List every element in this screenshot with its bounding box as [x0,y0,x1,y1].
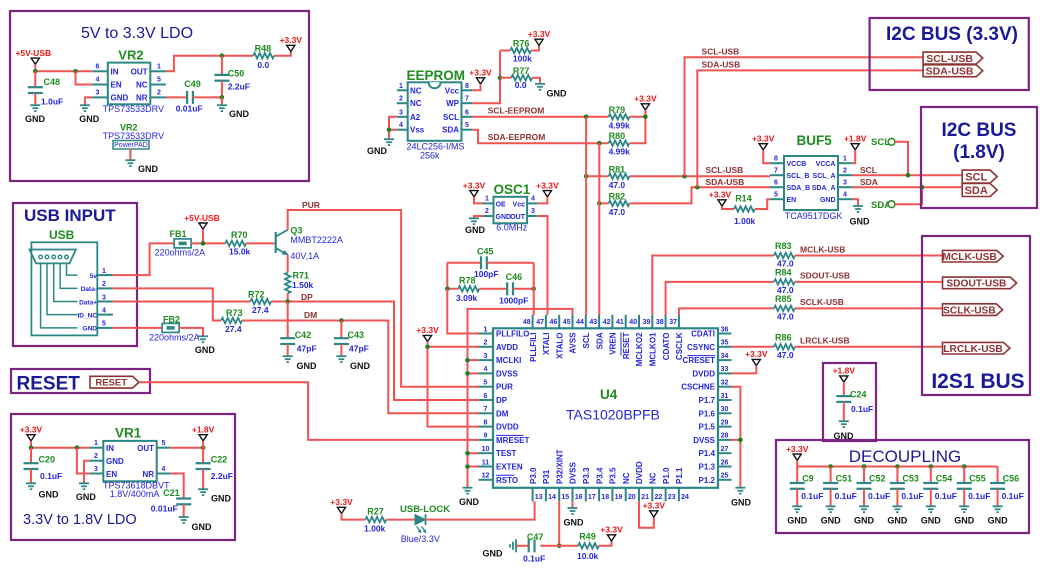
svg-text:36: 36 [721,326,729,333]
svg-text:SCL: SCL [443,113,459,122]
resistor R77 [500,77,511,79]
capacitor C43 on DM [340,321,342,339]
wire USB internal [41,263,78,328]
wire DVDD pin21 power [639,501,654,527]
wire VR1 GND [84,461,90,483]
ground [826,505,836,507]
svg-text:GND: GND [854,516,875,526]
svg-text:100k: 100k [513,54,532,64]
svg-text:GND: GND [483,549,504,559]
power flag +3.3V [287,45,295,51]
svg-text:+3.3V: +3.3V [416,325,439,335]
ground [735,487,745,489]
capacitor C9 [796,467,798,484]
ground [515,539,517,552]
svg-text:R70: R70 [231,230,248,240]
power flag +5V-USB [31,58,39,64]
svg-text:5: 5 [484,380,488,387]
ground at DVSS pin16 [572,501,574,507]
svg-text:6: 6 [96,64,100,71]
svg-text:2: 2 [484,340,488,347]
capacitor C48 [34,71,36,87]
capacitor C42 on DP [287,302,289,339]
svg-text:GND: GND [921,516,942,526]
node junction [33,69,38,74]
svg-text:SCL-USB: SCL-USB [706,165,744,175]
ground [125,159,135,161]
svg-text:XTALI: XTALI [542,333,551,356]
svg-text:2: 2 [94,453,98,460]
svg-text:GND: GND [820,197,836,204]
svg-text:USB INPUT: USB INPUT [24,206,116,225]
wire OUT to XTALI [538,216,548,315]
node junction [906,173,911,178]
svg-text:24: 24 [681,494,689,501]
svg-text:VREN: VREN [609,332,618,354]
svg-text:3: 3 [531,208,535,215]
svg-text:47pF: 47pF [349,344,369,354]
node junction [387,127,392,132]
wire [287,293,289,301]
svg-text:3: 3 [94,466,98,473]
svg-text:+3.3V: +3.3V [786,444,809,454]
wire LED to P3.0 [426,501,535,519]
svg-text:VCCB: VCCB [787,161,807,168]
svg-text:SDA-USB: SDA-USB [926,66,974,78]
svg-text:GND: GND [25,114,46,124]
svg-text:1.00k: 1.00k [364,524,386,534]
svg-text:47pF: 47pF [297,344,317,354]
svg-text:+5V-USB: +5V-USB [15,48,51,58]
resistor R79 [609,114,630,119]
power flag +3.3V at R76 [535,39,543,45]
svg-text:TPS73533DRV: TPS73533DRV [103,131,164,141]
power flag +3.3V at Vcc [476,78,484,84]
svg-text:+3.3V: +3.3V [469,68,492,78]
power flag +3.3V at Vcc [543,191,551,197]
ground [79,482,89,484]
svg-text:CRESET: CRESET [683,356,716,365]
wire R14 to EN [755,199,770,209]
svg-text:GND: GND [954,516,975,526]
svg-text:2: 2 [157,90,161,97]
resistor R81 [609,174,630,179]
net flag SCL [962,170,997,183]
svg-text:R14: R14 [735,194,752,204]
svg-text:C20: C20 [39,455,56,465]
svg-text:8: 8 [465,83,469,90]
resistor R80 [609,141,630,146]
svg-text:+3.3V: +3.3V [528,29,551,39]
svg-text:PLLFILO: PLLFILO [496,330,529,339]
svg-text:4: 4 [102,307,106,314]
wire Data+ to R72 [113,301,250,303]
svg-text:I2C BUS: I2C BUS [942,120,1017,141]
net flag MCLK-USB [943,250,1004,262]
svg-text:DVSS: DVSS [496,369,518,378]
svg-text:GND: GND [229,109,250,119]
svg-text:RESET: RESET [622,332,631,359]
svg-text:+3.3V: +3.3V [709,190,732,200]
node junction [920,185,925,190]
svg-text:R83: R83 [775,241,792,251]
net flag SDA-USB [923,65,983,77]
svg-text:C49: C49 [184,79,201,89]
svg-text:3: 3 [96,90,100,97]
svg-text:GND: GND [564,518,585,528]
node junction [738,438,743,443]
block border DECOUPLING [776,440,1029,533]
svg-text:GND: GND [496,214,512,221]
power flag +3.3V at VCCB [759,144,767,150]
capacitor C20 [30,448,32,464]
svg-text:SDA_A: SDA_A [812,185,836,192]
svg-text:1: 1 [102,268,106,275]
wire [179,328,203,336]
ground [469,217,479,219]
svg-text:GND: GND [39,490,60,500]
wire C47 left [540,545,559,547]
svg-text:R82: R82 [609,191,626,201]
svg-text:GND: GND [350,361,371,371]
svg-text:EN: EN [106,470,117,479]
svg-text:GND: GND [297,361,318,371]
node junction [643,115,648,120]
svg-text:DM: DM [496,409,509,418]
svg-text:GND: GND [79,114,100,124]
svg-text:OSC1: OSC1 [494,182,531,197]
svg-text:7: 7 [774,168,778,175]
svg-text:+1.8V: +1.8V [833,366,856,376]
svg-text:CDATI: CDATI [691,330,715,339]
svg-text:GND: GND [195,345,216,355]
svg-text:4: 4 [399,122,403,129]
node DP junction [285,299,290,304]
svg-text:PUR: PUR [302,200,320,210]
svg-text:MCLK-USB: MCLK-USB [942,252,996,263]
svg-text:SDA: SDA [595,332,604,349]
svg-text:ID_NC: ID_NC [77,312,97,319]
wire SDA vertical to U4 pin43 [598,143,600,203]
node junction [220,53,225,58]
svg-text:SDA-EEPROM: SDA-EEPROM [488,132,546,142]
svg-text:Vcc: Vcc [513,202,526,209]
ground [853,205,863,207]
ground [198,335,208,337]
svg-text:0.1uF: 0.1uF [801,491,823,501]
svg-text:XTALO: XTALO [555,333,564,360]
resistor R72 [250,299,271,304]
ground [792,505,802,507]
wire [479,288,507,290]
block border 5V to 3.3V LDO [10,11,309,181]
svg-text:40V,1A: 40V,1A [290,251,319,261]
wire to Q3 base [246,242,276,244]
svg-text:GND: GND [787,516,808,526]
svg-text:34: 34 [721,353,729,360]
svg-text:VR2: VR2 [118,48,143,63]
wire [629,110,645,143]
svg-text:DECOUPLING: DECOUPLING [849,447,961,466]
node junction [465,358,470,363]
svg-text:15.0k: 15.0k [229,247,251,257]
svg-text:0.1uF: 0.1uF [968,491,990,501]
svg-text:+3.3V: +3.3V [463,180,486,190]
power flag +3.3V at OE [470,191,478,197]
svg-text:USB: USB [49,228,75,242]
node junction [828,464,833,469]
svg-text:4: 4 [162,466,166,473]
svg-text:SDA-USB: SDA-USB [702,59,741,69]
wire [202,229,204,243]
svg-text:SDA: SDA [965,185,988,197]
svg-text:+5V-USB: +5V-USB [184,213,220,223]
svg-text:15: 15 [561,494,569,501]
svg-text:42: 42 [603,319,611,326]
svg-text:16: 16 [575,494,583,501]
svg-text:C46: C46 [506,272,523,282]
svg-text:27.4: 27.4 [225,324,242,334]
svg-text:C47: C47 [527,532,544,542]
capacitor C46 [506,282,508,295]
svg-text:NC: NC [649,472,658,484]
capacitor C45 [480,256,482,269]
svg-text:GND: GND [83,326,98,333]
wire [763,150,770,163]
resistor R73 [221,318,242,323]
svg-text:0.1uF: 0.1uF [901,491,923,501]
transistor Q3 [275,232,277,253]
svg-text:C42: C42 [295,330,312,340]
wire [629,187,770,203]
wire [191,242,225,244]
svg-text:SCL: SCL [871,137,890,148]
svg-text:C45: C45 [477,247,494,257]
svg-text:VCCA: VCCA [816,161,836,168]
svg-text:220ohms/2A: 220ohms/2A [149,333,200,343]
svg-text:40: 40 [629,319,637,326]
svg-text:Data-: Data- [81,286,97,293]
resistor R14 [722,206,734,209]
ic U4 TAS1020BPFB body [493,328,718,488]
svg-text:EXTEN: EXTEN [496,463,523,472]
wire to PLLFILO pin1 [447,289,478,334]
resistor R83 [774,253,795,258]
svg-text:35: 35 [721,340,729,347]
svg-text:IN: IN [106,444,114,453]
svg-text:NC: NC [136,81,148,90]
svg-text:DP: DP [301,292,313,302]
svg-text:EEPROM: EEPROM [407,68,466,83]
svg-text:VR1: VR1 [115,426,142,441]
svg-text:C43: C43 [348,330,365,340]
svg-text:0.1uF: 0.1uF [868,491,890,501]
svg-text:DVSS: DVSS [693,436,715,445]
net flag SCL-USB [923,52,983,64]
svg-text:0.1uF: 0.1uF [40,471,62,481]
svg-text:27.4: 27.4 [252,305,269,315]
wire 5v to FB1 [113,243,174,275]
U4 top pins [532,315,534,329]
wire [532,78,540,84]
svg-text:0.0: 0.0 [257,60,269,70]
svg-text:0.1uF: 0.1uF [1002,491,1024,501]
svg-text:I2S1 BUS: I2S1 BUS [931,370,1024,393]
svg-text:47: 47 [536,319,544,326]
power flag +3.3V at DVDD pin21 [650,511,658,517]
power flag +1.8V at C24 [840,376,848,382]
wire AVDD DVDD [428,342,479,427]
wire [202,441,204,448]
U4 bottom pins [532,488,534,502]
svg-text:3.3V to 1.8V LDO: 3.3V to 1.8V LDO [23,512,137,528]
ferrite bead FB1 [174,239,191,248]
power flag +3.3V decoupling [793,454,801,460]
svg-text:DVDD: DVDD [635,461,644,484]
svg-text:NC: NC [410,86,422,95]
svg-text:OUT: OUT [137,444,154,453]
svg-text:18: 18 [601,494,609,501]
svg-text:AVDD: AVDD [496,343,518,352]
svg-text:3: 3 [102,294,106,301]
svg-text:P1.5: P1.5 [699,423,716,432]
svg-text:MCLKO1: MCLKO1 [649,332,658,366]
svg-text:38: 38 [656,319,664,326]
wire SDA-USB to I2C bus [697,70,923,187]
svg-text:SDA: SDA [860,177,878,187]
resistor R71 [285,273,290,294]
led USB-LOCK [415,515,425,525]
wire DP net [271,302,478,401]
svg-text:SDA-USB: SDA-USB [706,177,745,187]
wire [386,519,415,521]
svg-text:25: 25 [721,473,729,480]
wire NR net [166,96,187,98]
svg-text:EN: EN [787,197,797,204]
svg-text:DP: DP [496,396,508,405]
svg-text:14: 14 [548,494,556,501]
svg-text:GND: GND [76,492,97,502]
svg-text:+3.3V: +3.3V [643,501,666,511]
svg-text:2: 2 [485,208,489,215]
wire to PLLFILI pin48 [533,263,535,315]
svg-text:R79: R79 [609,105,626,115]
block border C24 [823,363,876,441]
wire [274,52,291,56]
node junction [201,241,206,246]
svg-text:44: 44 [576,319,584,326]
svg-text:47.0: 47.0 [777,311,794,321]
svg-text:GND: GND [821,516,842,526]
svg-text:TEST: TEST [496,449,517,458]
svg-text:C51: C51 [836,474,853,484]
ground [839,420,849,422]
svg-text:5: 5 [157,77,161,84]
capacitor C21 [176,497,191,499]
svg-text:TCA9517DGK: TCA9517DGK [785,211,843,221]
svg-text:100pF: 100pF [474,269,499,279]
wire BUF5 GND [852,199,858,205]
svg-text:C55: C55 [969,474,986,484]
node junction [220,95,225,100]
buffer BUF5 body [784,156,838,210]
svg-text:6.0MHz: 6.0MHz [496,223,528,233]
power flag +5V-USB [199,223,207,229]
svg-text:C9: C9 [802,474,814,484]
svg-text:DVSS: DVSS [569,462,578,484]
net flag LRCLK-USB [943,342,1010,354]
resistor R70 [225,241,246,246]
svg-text:C24: C24 [850,390,867,400]
svg-text:R72: R72 [248,290,265,300]
wire SCL-USB row R81 [586,175,609,177]
net flag RESET [90,376,139,388]
svg-text:0.1uF: 0.1uF [851,404,873,414]
svg-text:SCLK-USB: SCLK-USB [943,305,996,316]
svg-text:R76: R76 [513,39,530,49]
power flag +3.3V at R79 [641,104,649,110]
svg-text:5: 5 [774,192,778,199]
svg-text:R78: R78 [459,276,476,286]
svg-text:EN: EN [111,81,122,90]
wire [732,366,757,374]
svg-text:Blue/3.3V: Blue/3.3V [401,534,440,544]
wire PLL filter top row [447,262,481,264]
svg-text:PowerPAD: PowerPAD [114,142,148,149]
svg-text:Vss: Vss [410,126,425,135]
svg-text:43: 43 [589,319,597,326]
svg-text:4.99k: 4.99k [609,120,631,130]
wire P32/XINT to C47 R49 [558,501,560,546]
wire MCLK-USB net [652,256,774,316]
svg-text:NC: NC [622,472,631,484]
connector J USB body [31,242,97,335]
svg-text:I2C BUS (3.3V): I2C BUS (3.3V) [886,24,1018,45]
svg-text:SCLK-USB: SCLK-USB [800,297,844,307]
svg-text:7: 7 [484,406,488,413]
node junction [557,544,562,549]
svg-text:+3.3V: +3.3V [752,134,775,144]
svg-text:0.1uF: 0.1uF [835,491,857,501]
svg-text:37: 37 [669,319,677,326]
node junction [584,174,589,179]
svg-text:SDOUT-USB: SDOUT-USB [800,271,850,281]
wire [629,175,770,177]
svg-text:LRCLK-USB: LRCLK-USB [943,344,1002,355]
wire OUT net [166,56,253,72]
svg-text:CSCHNE: CSCHNE [681,383,715,392]
svg-text:RESET: RESET [17,374,81,395]
svg-text:26: 26 [721,459,729,466]
svg-text:3: 3 [399,109,403,116]
svg-text:R77: R77 [513,66,530,76]
wire SDA-EEPROM net [472,130,608,144]
wire [538,197,548,204]
ground [859,505,869,507]
wire [795,255,943,257]
svg-text:220ohms/2A: 220ohms/2A [155,248,206,258]
svg-text:SCL-USB: SCL-USB [926,53,973,65]
ground [336,355,346,357]
node junction [425,345,430,350]
ground [384,138,394,140]
wire A2 Vss to ground [389,117,397,130]
wire [795,346,943,348]
svg-text:DM: DM [304,310,317,320]
wire [795,307,943,309]
svg-text:R81: R81 [609,164,626,174]
resistor R84 [774,279,795,284]
